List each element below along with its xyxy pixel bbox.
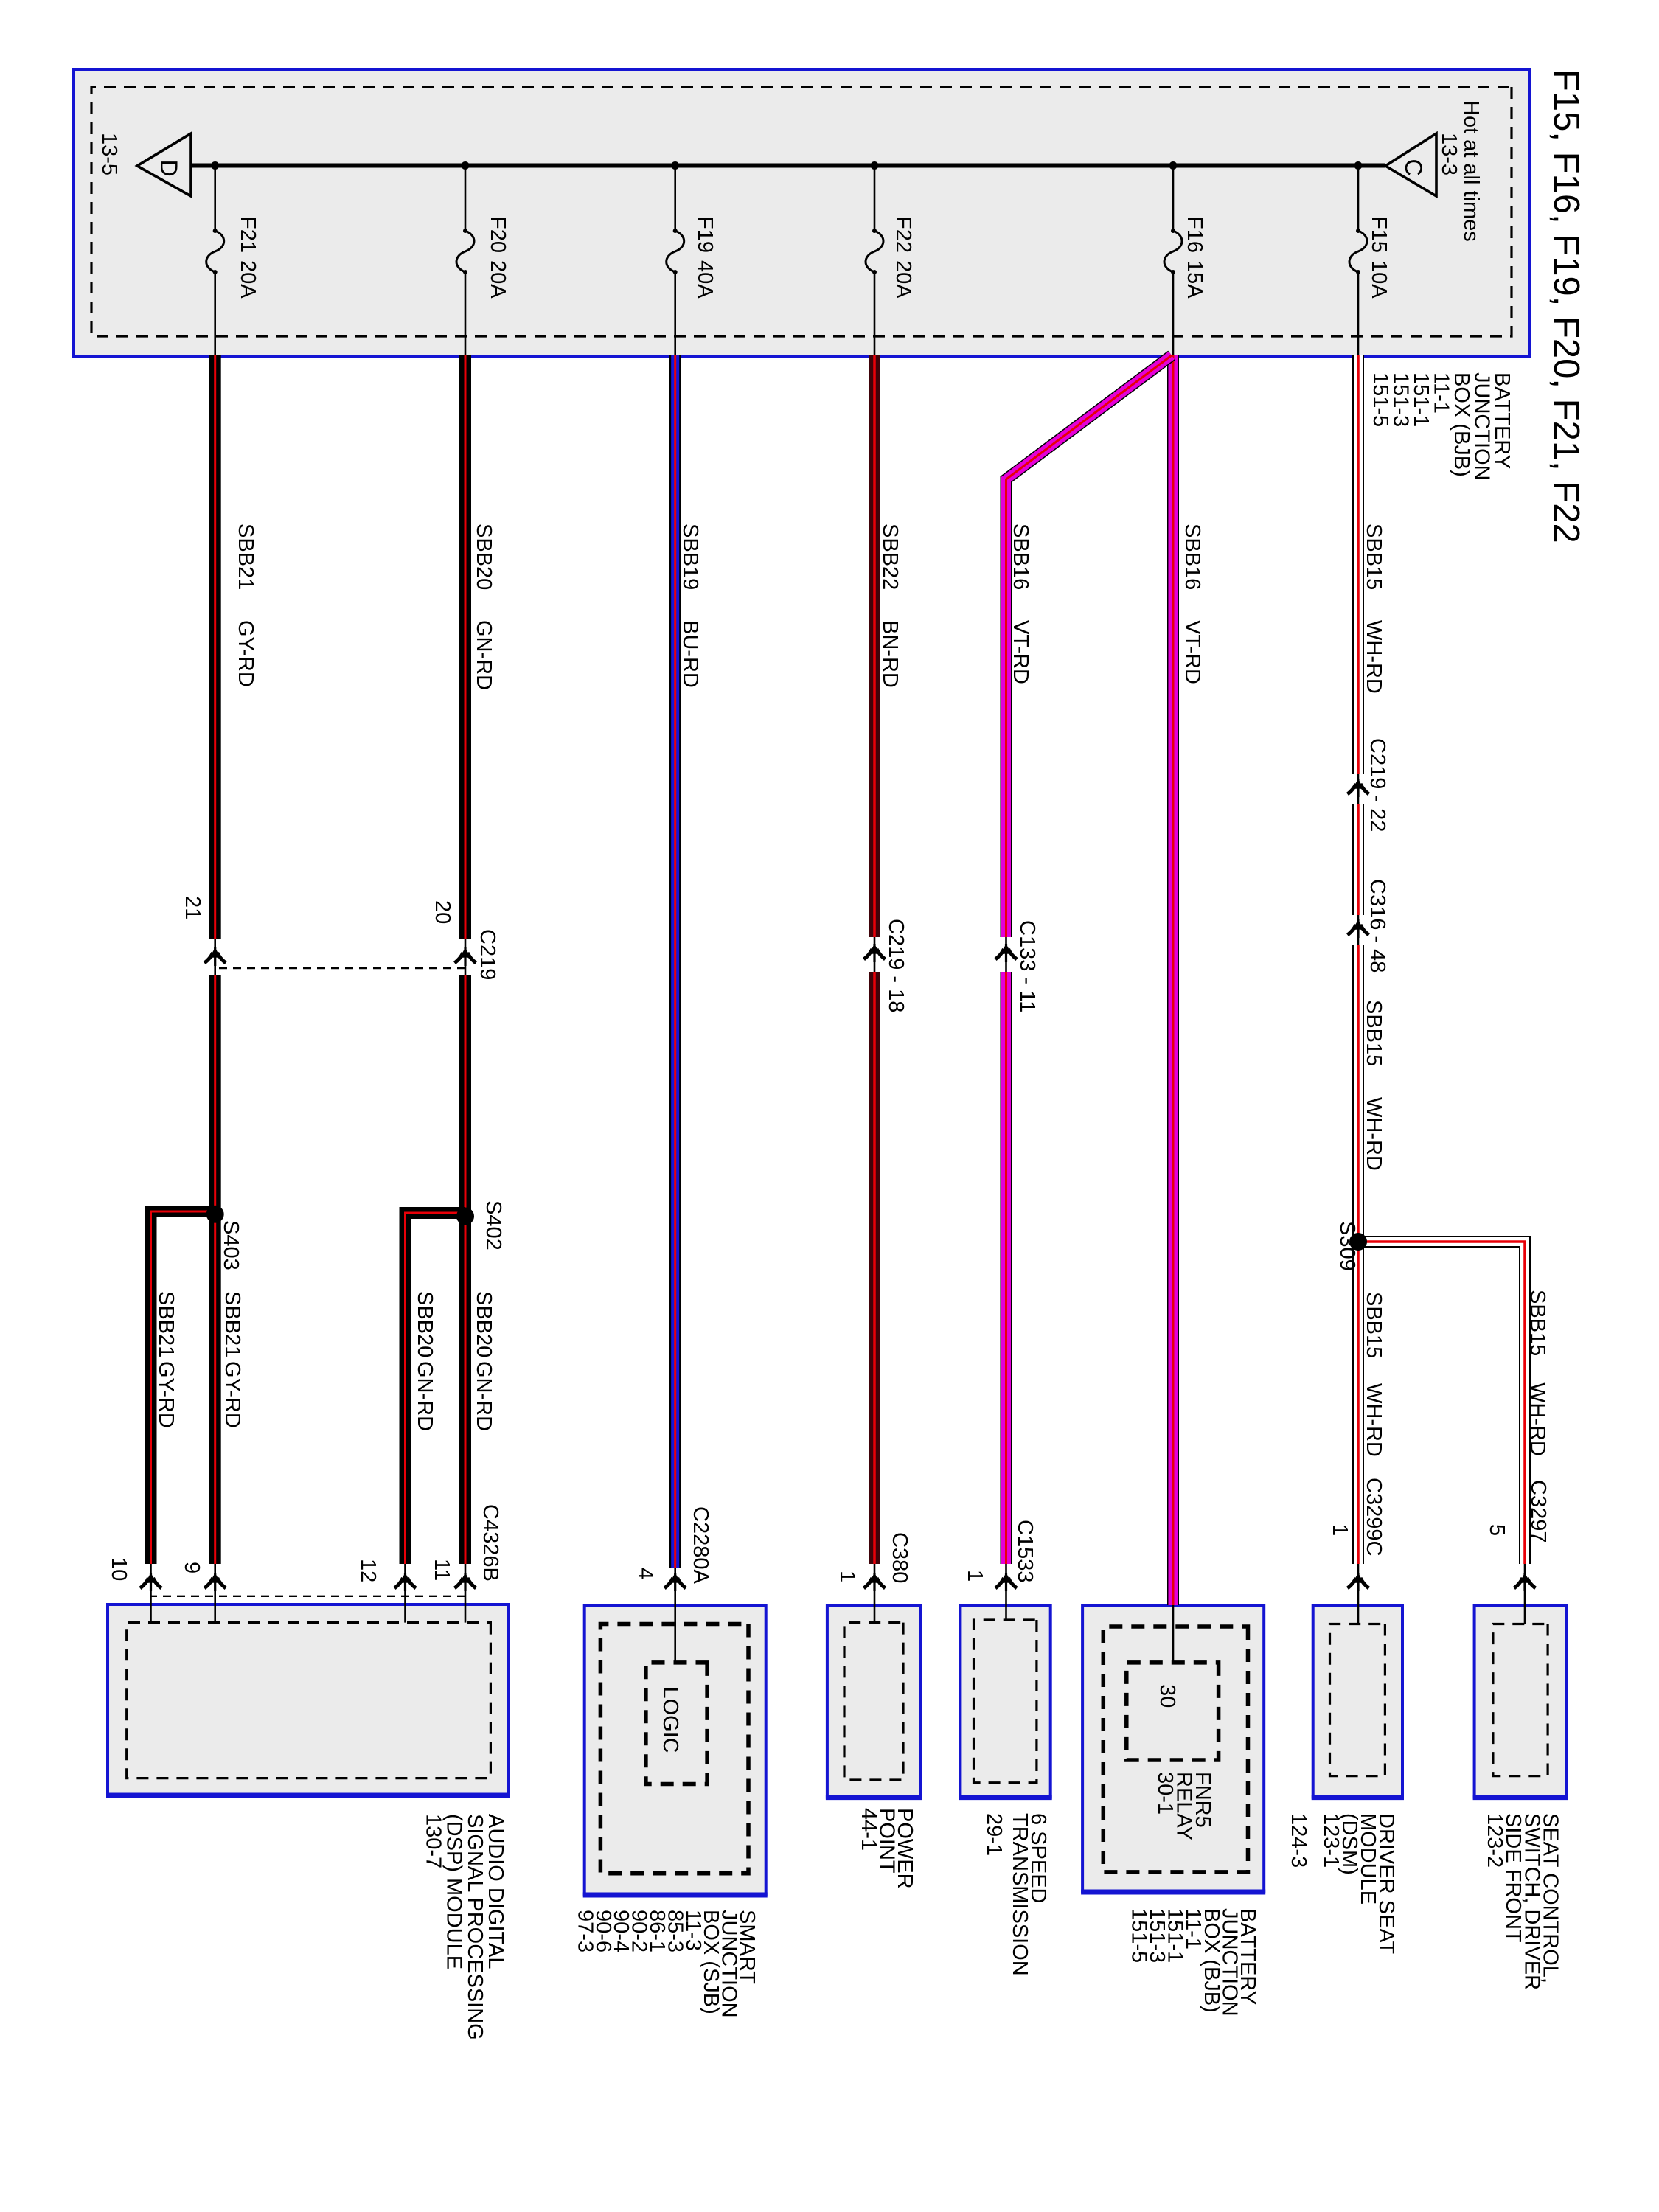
svg-text:C316 - 48: C316 - 48 xyxy=(1366,879,1389,973)
svg-text:WH-RD: WH-RD xyxy=(1362,620,1385,694)
svg-text:GN-RD: GN-RD xyxy=(472,1361,495,1431)
svg-text:BOX (BJB): BOX (BJB) xyxy=(1450,372,1473,477)
svg-text:11-1: 11-1 xyxy=(1430,372,1453,414)
svg-text:S402: S402 xyxy=(481,1200,505,1251)
svg-text:20A: 20A xyxy=(891,260,915,299)
svg-text:40A: 40A xyxy=(693,260,717,299)
svg-text:F22: F22 xyxy=(891,216,915,253)
svg-text:5: 5 xyxy=(1485,1524,1509,1536)
svg-text:SBB21: SBB21 xyxy=(220,1291,244,1357)
svg-text:SBB16: SBB16 xyxy=(1009,524,1032,590)
svg-text:SBB16: SBB16 xyxy=(1180,524,1204,590)
svg-text:97-3: 97-3 xyxy=(573,1910,597,1952)
svg-text:D: D xyxy=(156,159,182,176)
svg-text:WH-RD: WH-RD xyxy=(1362,1097,1385,1171)
svg-text:C219 - 22: C219 - 22 xyxy=(1366,738,1389,832)
svg-text:C133 - 11: C133 - 11 xyxy=(1015,920,1039,1012)
svg-text:F15: F15 xyxy=(1367,216,1391,253)
svg-text:11: 11 xyxy=(430,1559,453,1581)
svg-text:SBB15: SBB15 xyxy=(1362,524,1385,590)
svg-text:JUNCTION: JUNCTION xyxy=(1470,372,1494,481)
svg-text:4: 4 xyxy=(633,1568,657,1579)
svg-text:C219: C219 xyxy=(476,929,499,980)
svg-text:S309: S309 xyxy=(1335,1221,1359,1271)
svg-text:130-7: 130-7 xyxy=(421,1814,445,1868)
svg-text:151-3: 151-3 xyxy=(1389,372,1413,427)
svg-text:SBB21: SBB21 xyxy=(154,1291,178,1357)
svg-text:SBB20: SBB20 xyxy=(472,1291,495,1357)
svg-text:C380: C380 xyxy=(888,1532,911,1583)
svg-text:SBB15: SBB15 xyxy=(1526,1290,1549,1356)
svg-text:GN-RD: GN-RD xyxy=(413,1361,437,1431)
svg-text:F19: F19 xyxy=(693,216,717,253)
svg-text:10A: 10A xyxy=(1367,260,1391,299)
svg-text:151-1: 151-1 xyxy=(1409,372,1433,427)
svg-text:C4326B: C4326B xyxy=(479,1504,502,1582)
svg-text:(DSP) MODULE: (DSP) MODULE xyxy=(442,1814,466,1969)
svg-text:SBB20: SBB20 xyxy=(413,1291,437,1357)
svg-text:151-5: 151-5 xyxy=(1368,372,1392,427)
svg-text:44-1: 44-1 xyxy=(857,1808,880,1851)
svg-text:21: 21 xyxy=(181,896,204,919)
svg-text:C1533: C1533 xyxy=(1013,1520,1037,1582)
svg-text:123-1: 123-1 xyxy=(1319,1813,1343,1868)
svg-text:10: 10 xyxy=(107,1557,131,1581)
svg-text:151-5: 151-5 xyxy=(1127,1908,1150,1963)
svg-text:TRANSMISSION: TRANSMISSION xyxy=(1008,1813,1032,1976)
svg-text:1: 1 xyxy=(835,1571,859,1582)
svg-text:S403: S403 xyxy=(219,1220,243,1270)
svg-text:BU-RD: BU-RD xyxy=(678,620,702,688)
svg-text:15A: 15A xyxy=(1183,260,1206,299)
svg-text:SBB22: SBB22 xyxy=(878,524,902,590)
svg-text:1: 1 xyxy=(963,1570,987,1582)
svg-text:C2280A: C2280A xyxy=(689,1506,712,1584)
svg-text:LOGIC: LOGIC xyxy=(658,1687,682,1753)
svg-text:Hot at all times: Hot at all times xyxy=(1459,100,1483,242)
svg-text:SBB21: SBB21 xyxy=(234,524,257,590)
svg-text:13-5: 13-5 xyxy=(97,133,121,175)
svg-text:30-1: 30-1 xyxy=(1153,1772,1177,1815)
svg-text:C: C xyxy=(1400,159,1427,175)
svg-text:C219 - 18: C219 - 18 xyxy=(884,919,908,1012)
svg-text:WH-RD: WH-RD xyxy=(1362,1383,1385,1457)
svg-text:9: 9 xyxy=(180,1562,204,1573)
svg-text:GY-RD: GY-RD xyxy=(234,620,257,687)
svg-text:SBB15: SBB15 xyxy=(1362,1292,1385,1358)
svg-text:20: 20 xyxy=(431,900,454,924)
svg-text:F16: F16 xyxy=(1183,216,1206,253)
svg-text:WH-RD: WH-RD xyxy=(1526,1382,1549,1456)
svg-text:C3297: C3297 xyxy=(1526,1480,1550,1543)
svg-text:123-2: 123-2 xyxy=(1483,1813,1506,1868)
svg-text:BN-RD: BN-RD xyxy=(878,620,902,688)
svg-text:GN-RD: GN-RD xyxy=(472,620,495,690)
svg-text:SBB19: SBB19 xyxy=(678,524,702,590)
svg-text:20A: 20A xyxy=(486,260,509,299)
svg-text:SBB20: SBB20 xyxy=(472,524,495,590)
svg-text:30: 30 xyxy=(1155,1684,1179,1708)
svg-text:SIGNAL PROCESSING: SIGNAL PROCESSING xyxy=(463,1814,487,2040)
svg-text:C3299C: C3299C xyxy=(1362,1478,1385,1556)
svg-text:VT-RD: VT-RD xyxy=(1180,620,1204,684)
svg-text:F15, F16, F19, F20, F21, F22: F15, F16, F19, F20, F21, F22 xyxy=(1546,69,1586,543)
svg-text:12: 12 xyxy=(356,1559,380,1582)
svg-text:F20: F20 xyxy=(486,216,509,253)
svg-text:20A: 20A xyxy=(236,260,260,299)
svg-text:AUDIO DIGITAL: AUDIO DIGITAL xyxy=(484,1814,507,1969)
svg-text:GY-RD: GY-RD xyxy=(154,1361,178,1428)
svg-text:SBB15: SBB15 xyxy=(1362,1000,1385,1066)
svg-text:F21: F21 xyxy=(236,216,260,253)
svg-text:1: 1 xyxy=(1328,1524,1352,1536)
svg-text:13-3: 13-3 xyxy=(1437,133,1461,175)
svg-text:BATTERY: BATTERY xyxy=(1490,372,1514,469)
svg-text:124-3: 124-3 xyxy=(1287,1813,1310,1868)
svg-text:VT-RD: VT-RD xyxy=(1009,620,1032,684)
svg-text:GY-RD: GY-RD xyxy=(220,1361,244,1428)
svg-text:29-1: 29-1 xyxy=(982,1813,1006,1856)
